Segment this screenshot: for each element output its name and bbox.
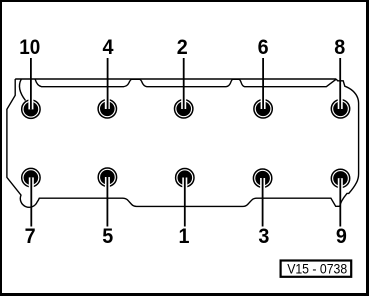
leader line 1	[184, 178, 186, 227]
svg-text:1: 1	[179, 224, 190, 248]
svg-text:3: 3	[258, 224, 269, 248]
head outline inner gasket line with reliefs	[35, 79, 336, 87]
bolt hole 9	[331, 169, 349, 191]
bolt hole 3	[253, 169, 271, 191]
leader line 10	[30, 58, 32, 109]
relief arc left of bolt 10	[19, 79, 25, 100]
bolt hole 2	[175, 96, 193, 118]
svg-text:5: 5	[102, 224, 113, 248]
leader line 8	[339, 58, 341, 109]
bolt hole 4	[98, 96, 116, 118]
svg-text:8: 8	[334, 35, 345, 59]
svg-text:6: 6	[258, 35, 269, 59]
leader line 2	[183, 58, 185, 109]
svg-text:7: 7	[25, 224, 36, 248]
leader line 4	[107, 58, 109, 109]
leader line 9	[339, 178, 341, 226]
svg-text:10: 10	[19, 35, 40, 59]
svg-text:2: 2	[177, 35, 188, 59]
figure id box V15-0738	[281, 261, 352, 278]
bolt hole 5	[98, 168, 116, 190]
bolt hole 10	[22, 97, 40, 119]
leader line 5	[106, 177, 108, 227]
svg-text:V15 - 0738: V15 - 0738	[287, 261, 347, 277]
leader line 7	[30, 177, 32, 226]
bolt hole 7	[22, 168, 40, 190]
leader line 6	[262, 58, 264, 109]
bolt hole 6	[254, 96, 272, 118]
head outline top edge line	[15, 78, 336, 80]
bolt hole 8	[331, 96, 349, 118]
head outline main contour	[7, 79, 359, 207]
svg-text:9: 9	[336, 224, 347, 248]
bolt hole 1	[176, 169, 194, 191]
svg-text:4: 4	[103, 35, 114, 59]
leader line 3	[262, 178, 264, 227]
